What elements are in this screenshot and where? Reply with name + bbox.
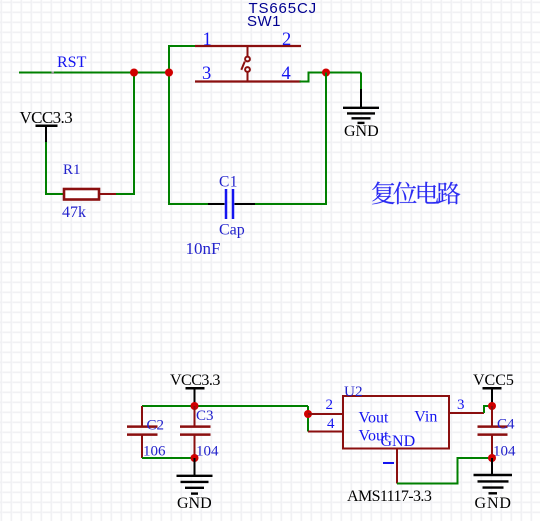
wire C1 right — [255, 203, 327, 205]
switch SW1 top contact line pins 1-2 — [195, 45, 301, 47]
svg-text:R1: R1 — [63, 162, 81, 178]
wire pin4 to GND junction — [300, 73, 362, 82]
pin number 1 dash mark — [383, 462, 394, 464]
wire pin3 to VCC5 — [484, 406, 492, 413]
capacitor C2 top lead — [141, 406, 143, 426]
junction dot on RST at R1 branch — [130, 69, 138, 77]
capacitor C4 top lead — [491, 406, 493, 426]
ground GND3 — [474, 458, 513, 493]
svg-text:3: 3 — [457, 397, 465, 413]
U2 pin3 wire — [449, 412, 484, 414]
svg-text:VCC3.3: VCC3.3 — [20, 108, 73, 127]
wire U2 GND to C4 node — [397, 458, 492, 484]
wire junction1 to R1 vertical — [133, 73, 135, 196]
svg-text:Vin: Vin — [414, 408, 437, 425]
svg-text:RST: RST — [57, 54, 87, 71]
switch SW1 actuator — [241, 46, 250, 82]
svg-text:GND: GND — [344, 123, 379, 140]
svg-text:104: 104 — [493, 444, 516, 460]
svg-text:C4: C4 — [497, 417, 515, 433]
wire R1 to junction1 vertical — [116, 193, 134, 195]
junction dot VCC3.3 — [191, 402, 199, 410]
svg-text:U2: U2 — [344, 383, 363, 400]
capacitor C1 plates — [226, 189, 233, 219]
svg-text:3: 3 — [202, 64, 211, 84]
svg-text:47k: 47k — [62, 204, 86, 221]
wire C1 left — [168, 203, 208, 205]
net label anchor dot — [52, 72, 54, 74]
capacitor C3 plates — [180, 427, 211, 435]
power port VCC3.3 (top) — [36, 126, 58, 142]
junction dot GND2 — [191, 454, 199, 462]
wire VCC3.3 bottom rail — [142, 405, 308, 407]
svg-text:4: 4 — [282, 64, 291, 84]
wire junction2 vertical pin1 to C1 — [168, 46, 170, 205]
text label "复位电路" (reset circuit title) — [372, 181, 460, 204]
capacitor C4 plates — [478, 427, 508, 435]
switch SW1 bottom contact line pins 3-4 — [195, 80, 301, 82]
wire down to GND1 — [360, 73, 362, 91]
svg-text:SW1: SW1 — [247, 13, 281, 30]
ground GND2 — [177, 458, 213, 494]
wire junction down to C1 right — [325, 73, 327, 206]
junction dot VCC5 — [488, 402, 496, 410]
svg-text:4: 4 — [327, 416, 335, 432]
capacitor C2 bottom lead — [141, 436, 143, 459]
capacitor C3 bottom lead — [194, 436, 196, 459]
svg-text:2: 2 — [282, 30, 291, 50]
svg-text:2: 2 — [326, 397, 334, 413]
junction dot C4 gnd — [488, 454, 496, 462]
junction dot pin2 — [304, 410, 312, 418]
regulator U2 body — [343, 396, 449, 449]
U2 pin4 wire — [308, 431, 343, 433]
capacitor C2 plates — [127, 427, 158, 435]
svg-text:GND: GND — [177, 495, 212, 512]
svg-text:C3: C3 — [196, 408, 214, 424]
svg-text:10nF: 10nF — [186, 239, 221, 258]
svg-text:VCC5: VCC5 — [473, 372, 514, 389]
wire VCC rail to U2 pins — [307, 406, 309, 432]
svg-text:AMS1117-3.3: AMS1117-3.3 — [347, 488, 432, 505]
wire C2 to GND2 rail — [142, 457, 195, 459]
ground GND1 — [343, 89, 379, 123]
svg-text:GND: GND — [381, 433, 416, 450]
capacitor C1 right lead — [235, 203, 256, 205]
svg-text:C1: C1 — [219, 174, 238, 191]
wire VCC3.3 to R1 — [46, 142, 64, 194]
wire RST net horizontal — [19, 72, 169, 74]
svg-text:104: 104 — [196, 444, 219, 460]
svg-text:1: 1 — [203, 30, 212, 50]
wire pin1 stub — [168, 45, 196, 47]
power port VCC3.3 (bottom) — [186, 388, 205, 406]
capacitor C3 top lead — [194, 406, 196, 426]
resistor R1 right lead — [99, 193, 116, 195]
junction dot on RST at C1 branch — [165, 69, 173, 77]
U2 pin2 wire — [308, 413, 343, 415]
svg-text:C2: C2 — [147, 418, 165, 434]
svg-text:Cap: Cap — [219, 222, 245, 239]
power port VCC5 — [483, 388, 502, 406]
svg-text:Vout: Vout — [359, 409, 389, 426]
svg-text:VCC3.3: VCC3.3 — [170, 372, 220, 389]
junction dot pin4 node — [322, 69, 330, 77]
capacitor C1 left lead — [208, 203, 225, 205]
U2 pin1 (GND) wire down — [396, 449, 398, 484]
capacitor C4 bottom lead — [491, 436, 493, 459]
svg-text:GND: GND — [475, 495, 512, 512]
resistor R1 body — [64, 189, 99, 200]
